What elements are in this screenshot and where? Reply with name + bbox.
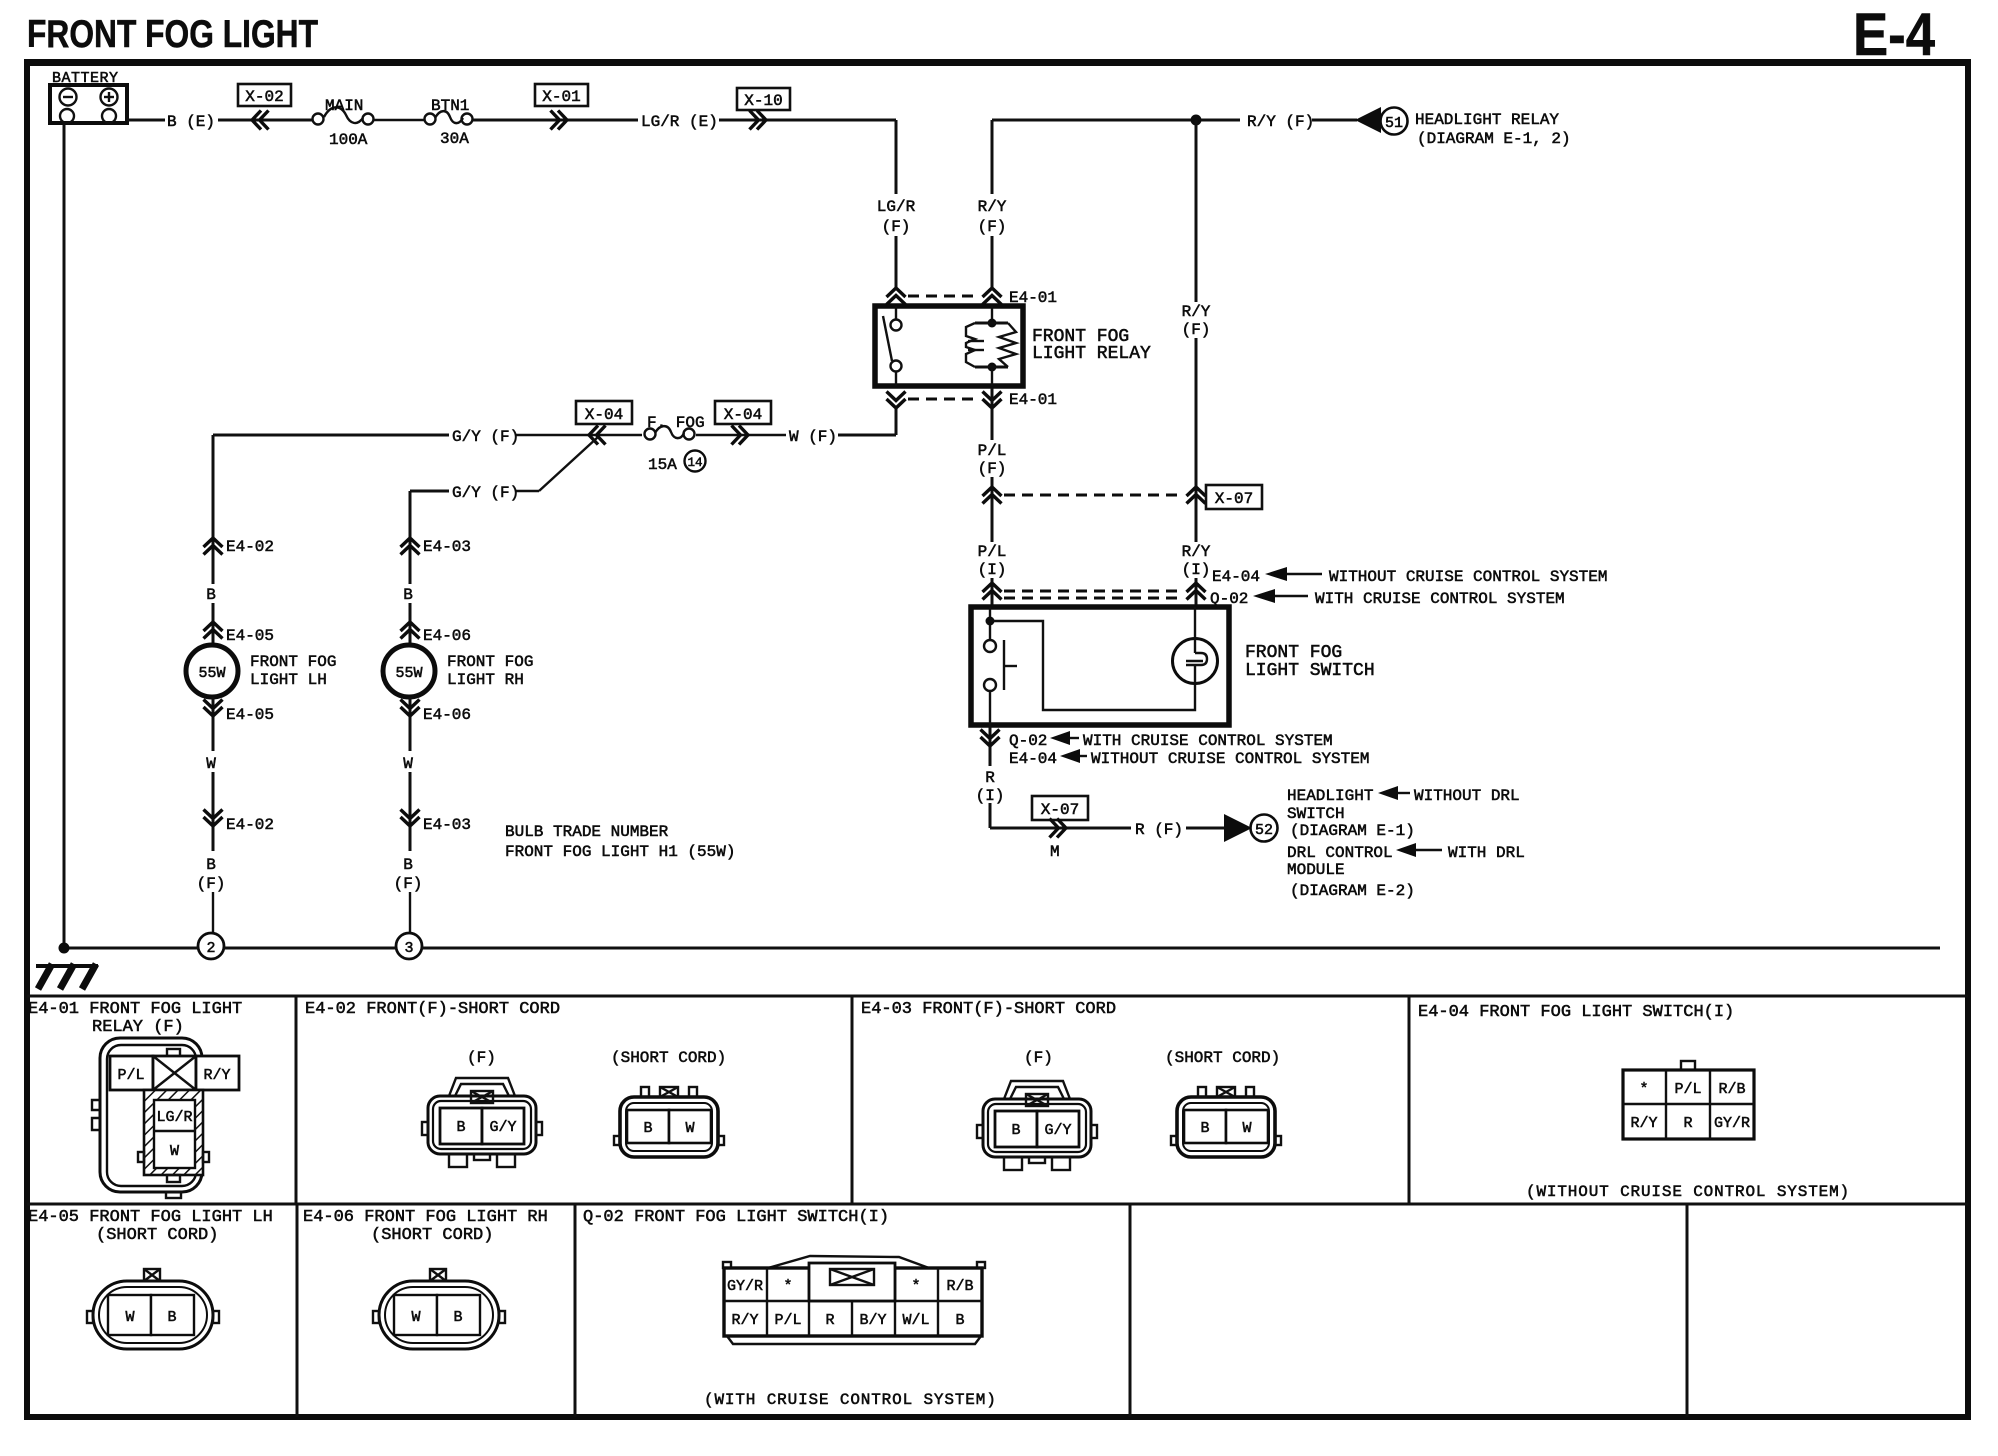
svg-text:(F): (F) [1182,321,1211,339]
svg-text:(F): (F) [467,1049,496,1067]
relay switch contacts [895,306,897,320]
svg-text:E4-04: E4-04 [1212,568,1260,586]
connector E4-05 chevron [204,622,223,639]
connector E4-02 chevron lower [204,810,223,827]
svg-text:55W: 55W [198,665,225,682]
svg-text:R/Y (F): R/Y (F) [1247,113,1314,131]
svg-text:DRL CONTROL: DRL CONTROL [1287,844,1393,862]
connector drawing E4-02 (F) [422,1078,542,1167]
svg-text:BTN1: BTN1 [431,97,469,115]
svg-text:(F): (F) [197,875,226,893]
svg-text:LG/R: LG/R [156,1109,192,1126]
connector E4-03 chevron RH [401,538,420,555]
wire R/Y right branch down [1195,120,1198,302]
svg-text:X-04: X-04 [724,406,762,424]
svg-text:R/B: R/B [1718,1081,1745,1098]
svg-text:E4-06: E4-06 [423,706,471,724]
svg-text:LIGHT RELAY: LIGHT RELAY [1032,344,1151,364]
connector drawing E4-06 [373,1269,505,1349]
svg-text:15A: 15A [648,456,677,474]
svg-text:WITH DRL: WITH DRL [1448,844,1525,862]
svg-text:(I): (I) [1182,561,1211,579]
svg-text:P/L: P/L [774,1312,801,1329]
connector E4-01 bottom chevrons [887,392,906,409]
svg-text:*: * [1639,1081,1648,1098]
connector X-04 right [715,401,771,424]
wire R (I) down [989,749,992,766]
svg-text:E4-01 FRONT FOG LIGHT: E4-01 FRONT FOG LIGHT [28,1000,242,1019]
front fog light LH bulb [186,645,238,697]
wire MAIN to BTN1 [374,119,424,121]
relay box front fog light relay [875,306,1023,386]
connector drawing E4-03 (F) [977,1081,1097,1170]
svg-text:R/Y: R/Y [1182,303,1211,321]
svg-text:B: B [1200,1120,1209,1137]
svg-text:LG/R: LG/R [877,198,916,216]
svg-text:LIGHT SWITCH: LIGHT SWITCH [1245,661,1375,681]
svg-text:FRONT FOG: FRONT FOG [1245,643,1342,663]
front fog light RH bulb [383,645,435,697]
RH column wire [409,491,412,584]
wire P/L from coil down [991,388,994,440]
label E4-04 without cruise lower [1009,749,1369,768]
svg-text:W: W [403,755,413,773]
svg-text:BULB TRADE NUMBER: BULB TRADE NUMBER [505,823,669,841]
junction node 3 [396,933,422,959]
svg-text:R/Y: R/Y [731,1312,758,1329]
svg-text:14: 14 [687,456,702,470]
svg-text:E4-03: E4-03 [423,816,471,834]
connector X-04 left [576,401,632,424]
svg-text:R/Y: R/Y [1182,543,1211,561]
svg-text:W: W [206,755,216,773]
svg-text:X-10: X-10 [744,92,782,110]
svg-text:E4-04 FRONT FOG LIGHT SWITCH(I: E4-04 FRONT FOG LIGHT SWITCH(I) [1418,1003,1734,1022]
connector E4-06 chevron lower [401,700,420,717]
node junction R/Y [1191,115,1202,126]
svg-text:B: B [1011,1122,1020,1139]
svg-text:E4-01: E4-01 [1009,391,1057,409]
connector E4-02 chevron LH [204,538,223,555]
connector X-07 bottom [1032,796,1088,820]
switch internals [984,607,1195,725]
connector chevrons above switch [983,583,1002,600]
svg-text:WITH CRUISE CONTROL SYSTEM: WITH CRUISE CONTROL SYSTEM [1315,590,1565,608]
svg-text:WITH CRUISE CONTROL SYSTEM: WITH CRUISE CONTROL SYSTEM [1083,732,1333,750]
svg-text:WITHOUT CRUISE CONTROL SYSTEM: WITHOUT CRUISE CONTROL SYSTEM [1091,750,1369,768]
connector E4-05 chevron lower [204,700,223,717]
svg-text:55W: 55W [395,665,422,682]
battery [50,70,127,123]
connector drawing E4-01 relay (F) [92,1038,239,1198]
wire R/Y vertical from coil to top [991,120,994,194]
svg-text:B: B [643,1120,652,1137]
svg-text:B (E): B (E) [167,113,215,131]
svg-text:LIGHT RH: LIGHT RH [447,671,524,689]
svg-text:P/L: P/L [978,543,1007,561]
fuse MAIN 100A [313,97,374,149]
svg-text:(DIAGRAM E-1, 2): (DIAGRAM E-1, 2) [1417,130,1571,148]
svg-text:(F): (F) [978,218,1007,236]
svg-text:X-01: X-01 [542,88,580,106]
svg-text:E-4: E-4 [1853,1,1936,68]
svg-text:G/Y: G/Y [489,1119,516,1136]
label Q-02 with cruise lower [1009,731,1333,750]
wire battery negative to ground bus [63,123,66,948]
svg-text:52: 52 [1255,822,1273,839]
svg-text:R/Y: R/Y [203,1067,230,1084]
svg-text:B/Y: B/Y [859,1312,886,1329]
connector X-01 [535,84,588,106]
svg-text:(I): (I) [978,561,1007,579]
svg-text:B: B [206,856,216,874]
svg-text:Q-02: Q-02 [1009,732,1047,750]
svg-text:W/L: W/L [902,1312,929,1329]
svg-text:R: R [825,1312,834,1329]
labels headlight switch / DRL [1287,786,1525,900]
svg-text:E4-04: E4-04 [1009,750,1057,768]
svg-text:R/Y: R/Y [1630,1115,1657,1132]
LH column wire [212,435,215,584]
svg-text:B: B [955,1312,964,1329]
svg-text:E4-03 FRONT(F)-SHORT CORD: E4-03 FRONT(F)-SHORT CORD [861,1000,1116,1019]
svg-text:R/Y: R/Y [978,198,1007,216]
connector drawing Q-02 [723,1256,985,1344]
svg-text:GY/R: GY/R [727,1278,763,1295]
svg-text:W: W [170,1143,179,1160]
svg-text:FRONT FOG: FRONT FOG [447,653,533,671]
connector drawing E4-02 (SHORT CORD) [614,1087,724,1157]
svg-text:MODULE: MODULE [1287,861,1345,879]
svg-text:100A: 100A [329,131,368,149]
svg-text:E4-06 FRONT FOG LIGHT RH: E4-06 FRONT FOG LIGHT RH [303,1208,548,1227]
arrow 52 [1224,814,1252,842]
svg-text:E4-05: E4-05 [226,706,274,724]
ground symbol [36,964,98,989]
svg-text:W: W [411,1309,420,1326]
connector X-10 [737,88,790,110]
svg-text:MAIN: MAIN [325,97,363,115]
wire to X-02 [218,119,313,122]
svg-text:B: B [456,1119,465,1136]
svg-text:*: * [911,1278,920,1295]
fuse BTN1 30A [425,97,473,148]
svg-text:(F): (F) [978,460,1007,478]
connector E4-06 chevron [401,622,420,639]
table grid [27,996,1968,1417]
arrow 51 headlight relay [1355,107,1381,133]
svg-text:P/L: P/L [978,442,1007,460]
svg-text:51: 51 [1385,115,1403,132]
svg-text:F. FOG: F. FOG [647,414,705,432]
svg-text:W: W [1242,1120,1251,1137]
svg-text:WITHOUT DRL: WITHOUT DRL [1414,787,1520,805]
ground bus wire [64,947,198,950]
wire P/L (I) [991,578,994,606]
svg-text:(DIAGRAM E-1): (DIAGRAM E-1) [1290,822,1415,840]
svg-text:X-04: X-04 [585,406,623,424]
connector drawing E4-05 [87,1269,219,1349]
switch box front fog light switch [971,607,1229,725]
svg-text:FRONT FOG: FRONT FOG [250,653,336,671]
svg-text:(I): (I) [976,787,1005,805]
svg-text:(DIAGRAM E-2): (DIAGRAM E-2) [1290,882,1415,900]
svg-text:LG/R (E): LG/R (E) [641,113,718,131]
wire R/Y(F) horizontal to headlight relay [992,119,1240,122]
svg-text:(SHORT CORD): (SHORT CORD) [371,1226,493,1245]
svg-text:(SHORT CORD): (SHORT CORD) [96,1226,218,1245]
svg-text:R: R [1683,1115,1692,1132]
svg-text:(F): (F) [882,218,911,236]
wire to X-10 [719,119,896,122]
svg-text:X-07: X-07 [1215,490,1253,508]
svg-text:3: 3 [404,940,413,957]
svg-text:GY/R: GY/R [1714,1115,1750,1132]
svg-text:FRONT FOG LIGHT: FRONT FOG LIGHT [27,13,318,56]
svg-text:R (F): R (F) [1135,821,1183,839]
svg-text:B: B [453,1309,462,1326]
svg-text:P/L: P/L [1674,1081,1701,1098]
wire R(F) to arrow 52 [990,827,1131,830]
label E4-04 without cruise [1212,567,1607,586]
wire BTN1 to X-01 [473,119,638,122]
wire W(F) horizontal run [213,434,449,437]
svg-text:LIGHT LH: LIGHT LH [250,671,327,689]
connector drawing E4-03 (SHORT CORD) [1171,1087,1281,1157]
svg-text:M: M [1050,843,1060,861]
svg-text:Q-02 FRONT FOG LIGHT SWITCH(I): Q-02 FRONT FOG LIGHT SWITCH(I) [583,1208,889,1227]
svg-text:RELAY (F): RELAY (F) [92,1018,184,1037]
svg-text:G/Y (F): G/Y (F) [452,428,519,446]
svg-text:SWITCH: SWITCH [1287,805,1345,823]
svg-text:B: B [403,586,413,604]
svg-text:W: W [685,1120,694,1137]
svg-text:E4-06: E4-06 [423,627,471,645]
svg-text:X-07: X-07 [1041,801,1079,819]
svg-text:HEADLIGHT RELAY: HEADLIGHT RELAY [1415,111,1559,129]
svg-text:B: B [206,586,216,604]
svg-text:(SHORT CORD): (SHORT CORD) [1165,1049,1280,1067]
junction node 2 [198,933,224,959]
connector X-07 chevrons [983,487,1002,504]
svg-text:R/B: R/B [946,1278,973,1295]
svg-text:(F): (F) [394,875,423,893]
wire battery positive B(E) [127,119,165,122]
svg-text:G/Y: G/Y [1044,1122,1071,1139]
svg-text:W (F): W (F) [789,428,837,446]
svg-text:E4-02: E4-02 [226,816,274,834]
svg-text:B: B [403,856,413,874]
svg-text:R: R [985,769,995,787]
svg-text:(WITH CRUISE CONTROL SYSTEM): (WITH CRUISE CONTROL SYSTEM) [704,1391,997,1409]
svg-text:W: W [125,1309,134,1326]
fuse F.FOG 15A [645,414,706,474]
connector drawing E4-04 [1623,1061,1754,1139]
wire G/Y second branch [410,490,449,493]
svg-text:P/L: P/L [117,1067,144,1084]
relay coil [966,306,1016,386]
wire R/Y (I) [1195,578,1198,606]
switch lamp [1173,607,1218,684]
svg-text:*: * [783,1278,792,1295]
svg-text:E4-05: E4-05 [226,627,274,645]
wire relay switch down to W(F) run [895,407,898,435]
svg-text:FRONT FOG LIGHT H1 (55W): FRONT FOG LIGHT H1 (55W) [505,843,735,861]
connector X-02 [238,84,291,106]
wire LG/R(F) vertical to relay [895,120,898,194]
svg-text:2: 2 [206,940,215,957]
svg-text:E4-03: E4-03 [423,538,471,556]
svg-text:E4-02: E4-02 [226,538,274,556]
svg-text:WITHOUT CRUISE CONTROL SYSTEM: WITHOUT CRUISE CONTROL SYSTEM [1329,568,1607,586]
svg-text:B: B [167,1309,176,1326]
svg-text:HEADLIGHT: HEADLIGHT [1287,787,1373,805]
svg-text:30A: 30A [440,130,469,148]
label Q-02 with cruise [1210,589,1565,608]
svg-text:E4-02 FRONT(F)-SHORT CORD: E4-02 FRONT(F)-SHORT CORD [305,1000,560,1019]
svg-text:(SHORT CORD): (SHORT CORD) [611,1049,726,1067]
chevron below switch [989,725,992,766]
svg-text:(F): (F) [1024,1049,1053,1067]
svg-text:(WITHOUT CRUISE CONTROL SYSTEM: (WITHOUT CRUISE CONTROL SYSTEM) [1526,1183,1850,1201]
connector E4-03 chevron lower [401,810,420,827]
connector E4-01 top chevrons [887,288,906,305]
svg-text:X-02: X-02 [245,88,283,106]
svg-text:G/Y (F): G/Y (F) [452,484,519,502]
svg-text:E4-05 FRONT FOG LIGHT LH: E4-05 FRONT FOG LIGHT LH [28,1208,273,1227]
